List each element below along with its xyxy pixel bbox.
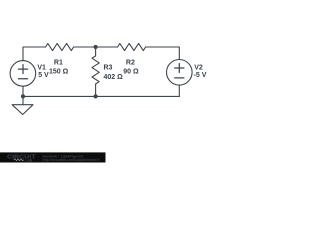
bottom wire [23, 95, 179, 97]
node A junction dot [94, 45, 98, 49]
ground symbol [12, 105, 33, 115]
voltage source V2 [167, 60, 193, 86]
svg-text:402 Ω: 402 Ω [104, 74, 124, 81]
svg-text:V2: V2 [194, 64, 203, 71]
wire node A to R2 [96, 46, 118, 48]
wire V2 bottom [178, 85, 180, 96]
wire V1 top to R1 [23, 47, 46, 61]
watermark bar [0, 152, 106, 162]
V1 minus sign [18, 78, 27, 80]
svg-text:-5 V: -5 V [194, 72, 207, 79]
node B junction dot (R3 bottom) [94, 94, 98, 98]
resistor R1 [46, 43, 74, 50]
voltage source V1 [10, 61, 36, 87]
svg-text:http://circuitlab.com/c/pbp5z5: http://circuitlab.com/c/pbp5z5dzsk7e [43, 158, 100, 162]
V1 plus sign [18, 65, 27, 74]
svg-text:V1: V1 [37, 65, 46, 72]
wire R1 to node A [74, 46, 96, 48]
svg-text:90 Ω: 90 Ω [123, 68, 139, 75]
svg-text:R3: R3 [104, 65, 113, 72]
ground node junction dot [21, 94, 25, 98]
V2 plus sign [175, 64, 184, 73]
ground wire [22, 96, 24, 104]
svg-text:150 Ω: 150 Ω [49, 68, 69, 75]
svg-text:R1: R1 [54, 60, 63, 67]
V2 minus sign [175, 77, 184, 79]
CircuitLab logo zigzag [14, 159, 24, 161]
R3 top lead [95, 47, 97, 56]
wire V1 bottom to ground node [22, 86, 24, 96]
R3 bottom lead [95, 84, 97, 96]
svg-text:LAB: LAB [25, 158, 33, 162]
resistor R3 [92, 56, 99, 84]
svg-text:R2: R2 [126, 60, 135, 67]
resistor R2 [118, 43, 146, 50]
svg-text:5 V: 5 V [38, 72, 49, 79]
wire R2 to V2 top [146, 47, 180, 60]
